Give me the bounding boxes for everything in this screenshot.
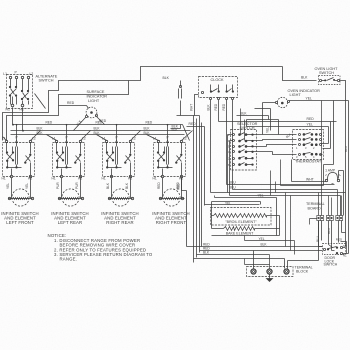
- svg-text:BAKE ELEMENT: BAKE ELEMENT: [226, 232, 254, 236]
- svg-text:RANGE.: RANGE.: [60, 257, 78, 262]
- broil element resistor: [214, 214, 267, 218]
- fuse lamp symbol: [325, 179, 327, 181]
- wire long 2: [230, 195, 341, 197]
- svg-text:L1: L1: [2, 137, 6, 141]
- wire bottom loop: [212, 198, 280, 236]
- svg-text:RIGHT REAR: RIGHT REAR: [106, 220, 133, 225]
- oven indicator light: [277, 97, 287, 107]
- svg-text:RED: RED: [214, 103, 218, 110]
- svg-text:RED: RED: [96, 121, 103, 125]
- wire feeds LEFT REAR: [66, 125, 68, 141]
- svg-text:BLU: BLU: [327, 228, 331, 234]
- infinite switch RIGHT FRONT terminals: [157, 140, 159, 142]
- BLK bus wire 1: [11, 130, 191, 132]
- svg-text:BLK: BLK: [203, 250, 210, 254]
- infinite switch RIGHT REAR internals: [106, 143, 108, 152]
- svg-text:LIGHT: LIGHT: [290, 93, 302, 97]
- oven light switch: [319, 76, 341, 85]
- selector top verticals: [240, 109, 242, 135]
- wire YEL above broil: [215, 197, 277, 199]
- wire jog to N: [245, 255, 270, 269]
- svg-text:RIGHT FRONT: RIGHT FRONT: [156, 220, 187, 225]
- thermostat right wires: [320, 154, 323, 156]
- svg-text:YEL: YEL: [307, 122, 314, 126]
- wire horizontal BLK under clock: [177, 115, 200, 117]
- thermostat box: [293, 130, 324, 160]
- wire YEL right: [247, 127, 329, 144]
- svg-text:WHT: WHT: [189, 104, 193, 111]
- clock internals: [210, 85, 212, 91]
- svg-text:LIGHT: LIGHT: [88, 99, 100, 103]
- svg-text:SWITCH: SWITCH: [39, 79, 54, 83]
- svg-text:H1: H1: [52, 176, 56, 180]
- infinite switch LEFT REAR internals: [56, 143, 58, 152]
- wire feeds RIGHT REAR: [116, 125, 118, 141]
- door lock switch box: [323, 244, 346, 255]
- alternate switch box: [7, 75, 33, 109]
- svg-text:YEL: YEL: [258, 193, 264, 197]
- infinite switch LEFT REAR terminals: [55, 140, 57, 142]
- element RIGHT FRONT: [163, 189, 180, 206]
- svg-text:YEL: YEL: [306, 97, 313, 101]
- wire right rail 2: [348, 101, 350, 241]
- svg-text:L1: L1: [3, 72, 7, 76]
- svg-text:1 AMP: 1 AMP: [325, 169, 336, 173]
- svg-text:L2: L2: [30, 72, 34, 76]
- door lock switch contacts: [323, 248, 325, 250]
- svg-text:"BROIL ELEMENT": "BROIL ELEMENT": [225, 220, 257, 224]
- clock motor coil: [180, 81, 182, 87]
- svg-text:RED: RED: [307, 117, 315, 121]
- svg-text:YEL: YEL: [6, 183, 10, 189]
- svg-text:INDICATOR: INDICATOR: [87, 95, 108, 99]
- terminal board wires down: [319, 221, 323, 247]
- infinite switch LEFT REAR box: [53, 143, 85, 177]
- infinite switch RIGHT FRONT H terminals: [161, 175, 163, 177]
- wire BLK jog: [237, 116, 269, 120]
- surface indicator light: [86, 107, 97, 118]
- wires RIGHT REAR element leads: [111, 178, 113, 199]
- svg-text:YEL: YEL: [25, 183, 29, 189]
- alternate switch bottom terminals H1 H2: [11, 104, 14, 107]
- svg-text:LEFT REAR: LEFT REAR: [58, 220, 82, 225]
- terminal block box: [247, 267, 294, 277]
- thermostat contacts: [299, 134, 301, 136]
- infinite switch LEFT REAR H terminals: [60, 175, 62, 177]
- svg-text:NC: NC: [343, 255, 347, 258]
- svg-text:RED: RED: [336, 238, 343, 242]
- wire WHT to fuse: [292, 181, 326, 183]
- element RIGHT REAR: [112, 189, 129, 206]
- wire fuse right: [339, 171, 344, 216]
- svg-text:BLK: BLK: [144, 131, 151, 135]
- terminal board left hook: [310, 219, 317, 225]
- long verticals to bottom wires: [193, 116, 195, 263]
- svg-text:H1: H1: [102, 176, 106, 180]
- wire feeds RIGHT FRONT: [167, 125, 169, 141]
- svg-text:BLK: BLK: [206, 104, 210, 111]
- infinite switch RIGHT FRONT box: [154, 143, 186, 177]
- wire bottom 1 RED: [187, 246, 323, 248]
- svg-text:BLOCK: BLOCK: [296, 269, 309, 273]
- selector contacts: [233, 134, 235, 136]
- svg-text:BOARD: BOARD: [308, 206, 321, 210]
- wire clock terminal drops: [210, 100, 212, 193]
- svg-text:BLK: BLK: [241, 112, 248, 116]
- wire RED right: [219, 121, 337, 123]
- RED bus wire: [13, 124, 183, 126]
- svg-text:H1: H1: [153, 176, 157, 180]
- alternate switch pointer arrow: [35, 94, 46, 109]
- wire top bus to oven light switch: [283, 67, 317, 81]
- alternate switch top terminals L1 P L2: [9, 76, 11, 78]
- infinite switch RIGHT REAR box: [103, 143, 135, 177]
- wire H1 drop: [12, 108, 14, 125]
- wire BLU 1: [227, 184, 335, 186]
- svg-text:BLK: BLK: [301, 76, 308, 80]
- wire bottom 3 BLK: [197, 254, 270, 256]
- svg-text:PUR: PUR: [56, 182, 60, 189]
- wire oven light switch right: [340, 81, 346, 247]
- svg-text:LEFT FRONT: LEFT FRONT: [6, 220, 34, 225]
- svg-text:RED: RED: [67, 101, 75, 105]
- selector left wires: [228, 135, 233, 193]
- wire loop broil top: [212, 202, 261, 205]
- svg-text:RED: RED: [146, 121, 153, 125]
- svg-text:H1: H1: [2, 176, 6, 180]
- svg-text:BLK: BLK: [106, 182, 110, 189]
- infinite switch RIGHT REAR H terminals: [110, 175, 112, 177]
- infinite switch RIGHT REAR terminals: [105, 140, 107, 142]
- selector switch box: [231, 130, 257, 171]
- svg-text:YEL: YEL: [266, 127, 270, 133]
- bake element resistor: [224, 227, 255, 231]
- svg-text:BLU: BLU: [316, 236, 320, 242]
- svg-text:BLK: BLK: [94, 131, 101, 135]
- clock box: [199, 77, 238, 98]
- infinite switch LEFT FRONT box: [3, 143, 35, 177]
- svg-text:SWITCH: SWITCH: [319, 71, 334, 75]
- wire light diagonals to bus: [74, 118, 86, 131]
- alternate switch internal contacts: [10, 79, 12, 87]
- svg-text:BLK: BLK: [163, 76, 170, 80]
- svg-text:SWITCH: SWITCH: [324, 263, 338, 267]
- wire broil top stub: [214, 196, 216, 198]
- wire stair from alternate switch to top bus BLK: [3, 67, 283, 141]
- svg-text:H2: H2: [20, 108, 24, 112]
- wire long 1: [211, 192, 346, 194]
- wires LEFT REAR element leads: [61, 178, 63, 199]
- svg-text:BLK: BLK: [172, 125, 179, 129]
- svg-text:RED: RED: [189, 122, 197, 126]
- infinite switch LEFT FRONT internals: [6, 143, 8, 152]
- wires LEFT FRONT element leads: [11, 178, 13, 199]
- wire BLU 2: [233, 189, 338, 191]
- svg-text:BLU: BLU: [230, 185, 237, 189]
- terminal board connectors: [317, 216, 320, 221]
- svg-text:BLK: BLK: [261, 243, 268, 247]
- wire unit4 to bottom: [182, 178, 187, 247]
- wire RED to surface light: [59, 106, 89, 109]
- wires below oven indicator: [263, 103, 276, 135]
- wires RIGHT FRONT element leads: [162, 178, 164, 199]
- wire H2 drop: [22, 108, 24, 131]
- wire stair inner: [7, 81, 129, 141]
- svg-text:RED: RED: [46, 121, 53, 125]
- terminal board wires up: [318, 193, 320, 216]
- svg-text:RED: RED: [222, 103, 226, 110]
- infinite switch LEFT FRONT H terminals: [10, 175, 12, 177]
- wire clock left drop WHT: [195, 95, 199, 116]
- wire YEL from oven indicator: [290, 100, 349, 102]
- svg-text:BLU: BLU: [230, 180, 237, 184]
- clock terminals: [209, 97, 211, 99]
- wire feeds LEFT FRONT: [16, 125, 18, 141]
- ground symbol: [269, 274, 271, 279]
- element LEFT REAR: [62, 189, 79, 206]
- door lock right wires: [343, 247, 346, 249]
- wire right verticals to bottom: [285, 193, 287, 247]
- svg-text:PUR: PUR: [75, 182, 79, 189]
- svg-text:BLU: BLU: [344, 146, 348, 152]
- svg-text:RED: RED: [157, 182, 161, 189]
- wire bottom 4: [194, 221, 319, 269]
- selector to thermostat connectors: [253, 134, 297, 136]
- wire loop broil left side: [211, 202, 213, 229]
- terminal block terminals: [251, 269, 256, 274]
- svg-text:WHT: WHT: [306, 177, 314, 181]
- wire bottom 2 RED: [200, 250, 323, 252]
- svg-text:THERMOSTAT: THERMOSTAT: [295, 159, 322, 164]
- infinite switch RIGHT FRONT internals: [158, 143, 160, 152]
- svg-text:CLOCK: CLOCK: [211, 78, 225, 82]
- svg-text:SURFACE: SURFACE: [87, 90, 105, 94]
- BLK bus wire 2: [11, 134, 185, 136]
- svg-text:BLK: BLK: [125, 182, 129, 189]
- infinite switch LEFT FRONT terminals: [5, 140, 7, 142]
- svg-text:RED: RED: [177, 183, 181, 190]
- svg-text:H1: H1: [6, 108, 10, 112]
- element LEFT FRONT: [12, 189, 29, 206]
- broil element dashed box: [211, 208, 272, 226]
